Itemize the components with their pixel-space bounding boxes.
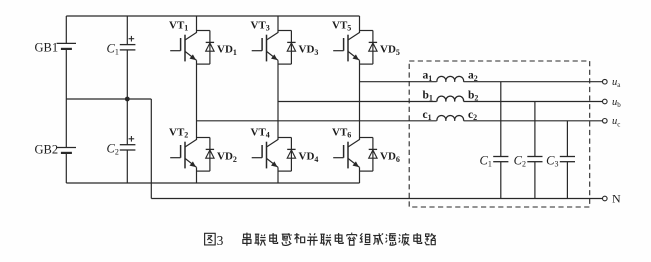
svg-text:3: 3: [217, 233, 224, 248]
battery GB2: [57, 147, 76, 149]
svg-text:uc: uc: [612, 116, 620, 128]
transistor VT1 (IGBT): [184, 35, 186, 62]
svg-text:VT3: VT3: [251, 19, 270, 32]
wire left rail upper (GB1 branch): [65, 16, 67, 43]
capacitor C2 (filter): [534, 102, 536, 157]
svg-text:VT2: VT2: [169, 126, 188, 139]
svg-text:b2: b2: [468, 90, 478, 103]
svg-text:C2: C2: [514, 154, 526, 169]
inductor a1-a2: [437, 76, 464, 81]
svg-text:ua: ua: [612, 77, 621, 89]
battery GB1: [57, 42, 76, 44]
svg-text:VT4: VT4: [251, 126, 270, 139]
wire phase c (from leg A): [197, 120, 437, 122]
diode VD2 (freewheel): [197, 137, 210, 139]
svg-text:ub: ub: [612, 97, 621, 109]
svg-text:VD4: VD4: [299, 151, 319, 164]
diode VD6 (freewheel): [360, 137, 373, 139]
svg-text:C3: C3: [546, 154, 558, 169]
svg-text:N: N: [612, 192, 621, 206]
transistor VT5 (IGBT): [347, 35, 349, 62]
svg-text:c2: c2: [468, 109, 477, 122]
svg-text:a2: a2: [468, 70, 478, 83]
node junction dot at C1/C2 midpoint: [125, 97, 130, 102]
diode VD5 (freewheel): [360, 30, 373, 32]
transistor VT6 (IGBT): [347, 142, 349, 169]
diode VD4 (freewheel): [278, 137, 291, 139]
wire leg A midpoint segment: [196, 60, 198, 140]
svg-text:VD2: VD2: [217, 151, 237, 164]
wire top DC+ rail: [66, 15, 359, 17]
svg-text:C2: C2: [107, 142, 119, 157]
caption 图3 串联电感和并联电容组成滤波电路: [205, 233, 216, 245]
diode VD1 (freewheel): [197, 30, 210, 32]
wire leg B emitter drop to - rail: [277, 167, 279, 183]
transistor VT3 (IGBT): [266, 35, 268, 62]
terminal N: [603, 196, 608, 201]
terminal uc: [603, 119, 608, 124]
wire leg C midpoint segment: [359, 60, 361, 140]
svg-text:VT1: VT1: [169, 19, 188, 32]
capacitor C1 (filter): [500, 82, 502, 157]
wire leg B collector drop from + rail: [277, 16, 279, 33]
svg-text:VD5: VD5: [380, 44, 400, 57]
polarity + of C2: [129, 138, 135, 140]
inductor b1-b2: [437, 96, 464, 101]
terminal ub: [603, 99, 608, 104]
wire leg C emitter drop to - rail: [359, 167, 361, 183]
wire middle DC midpoint: [66, 98, 151, 100]
svg-text:a1: a1: [423, 70, 433, 83]
filter block dashed outline: [409, 61, 590, 207]
capacitor C1: [126, 16, 128, 45]
wire phase a (from leg C): [360, 81, 437, 83]
svg-text:VT5: VT5: [332, 19, 351, 32]
wire leg A collector drop from + rail: [196, 16, 198, 33]
transistor VT4 (IGBT): [266, 142, 268, 169]
capacitor C2: [126, 99, 128, 145]
svg-text:VD1: VD1: [217, 44, 237, 57]
svg-text:c1: c1: [423, 109, 432, 122]
polarity + of C1: [129, 38, 135, 40]
diode VD3 (freewheel): [278, 30, 291, 32]
wire left rail lower (GB2 branch): [65, 99, 67, 147]
svg-text:C1: C1: [480, 154, 492, 169]
capacitor C3 (filter): [566, 121, 568, 157]
wire bottom DC- rail: [66, 182, 359, 184]
wire phase b (from leg B): [278, 101, 437, 103]
wire leg B midpoint segment: [277, 60, 279, 140]
wire N horizontal: [151, 198, 602, 200]
transistor VT2 (IGBT): [184, 142, 186, 169]
inductor c1-c2: [437, 115, 464, 120]
wire midpoint-to-N vertical: [150, 99, 152, 199]
svg-text:VD3: VD3: [299, 44, 319, 57]
svg-text:GB2: GB2: [35, 142, 59, 156]
terminal ua: [603, 79, 608, 84]
wire leg C collector drop from + rail: [359, 16, 361, 33]
svg-text:GB1: GB1: [35, 41, 59, 55]
svg-text:C1: C1: [107, 41, 119, 56]
svg-text:VD6: VD6: [380, 151, 400, 164]
svg-text:VT6: VT6: [332, 126, 351, 139]
svg-text:b1: b1: [423, 90, 433, 103]
wire leg A emitter drop to - rail: [196, 167, 198, 183]
